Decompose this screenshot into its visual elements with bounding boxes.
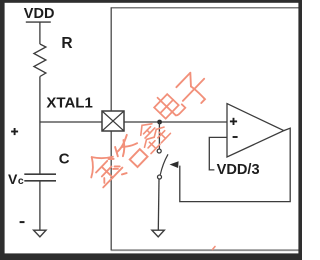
page border top	[0, 0, 302, 3]
arrowhead pointing at switch blade	[170, 161, 179, 168]
IC block outline (bottom edge)	[111, 249, 299, 251]
ground (below switch)	[152, 230, 164, 237]
ground (below capacitor)	[34, 230, 46, 237]
page border bottom	[0, 253, 302, 260]
resistor R	[34, 44, 46, 77]
watermark 电	[151, 89, 185, 123]
junction node dot	[157, 120, 162, 125]
svg-text:C: C	[59, 150, 70, 167]
wire: resistor to capacitor (through XTAL1 node)	[39, 77, 41, 174]
svg-text:XTAL1: XTAL1	[46, 95, 92, 112]
label - (capacitor polarity)	[20, 221, 25, 223]
watermark 鑫	[132, 115, 170, 153]
switch bottom contact	[158, 175, 162, 179]
capacitor C (top plate)	[24, 173, 56, 175]
watermark 洛	[105, 134, 150, 179]
page border left	[0, 0, 5, 260]
comparator - input mark	[233, 136, 238, 138]
capacitor C (bottom plate)	[24, 180, 56, 182]
svg-text:c: c	[18, 175, 24, 187]
label + (capacitor polarity)	[11, 128, 18, 135]
crystal XTAL1 (box with X)	[102, 111, 124, 131]
wire: comparator output feedback to switch	[180, 128, 290, 201]
svg-text:VDD: VDD	[24, 6, 55, 22]
wire: XTAL1 node to comparator + input	[40, 121, 227, 123]
comparator + input mark	[230, 118, 237, 125]
watermark 子	[173, 69, 215, 111]
switch blade	[160, 154, 168, 174]
IC block outline (top edge)	[111, 7, 299, 9]
IC block outline (left edge)	[110, 8, 112, 250]
wire: VDD bar to resistor	[39, 22, 41, 44]
op-amp comparator	[227, 104, 284, 157]
svg-text:R: R	[61, 35, 72, 52]
watermark 金	[81, 146, 123, 188]
svg-text:V: V	[8, 171, 18, 187]
page border right	[298, 0, 302, 260]
wire: - input to VDD/3 reference	[209, 137, 227, 170]
svg-text:VDD/3: VDD/3	[217, 162, 260, 178]
wire: node to switch	[158, 122, 160, 149]
VDD power bar	[26, 21, 51, 23]
wire: capacitor to ground	[39, 182, 41, 230]
switch top contact	[157, 149, 161, 153]
watermark stray fragment	[213, 247, 216, 250]
wire: switch to ground	[157, 179, 160, 230]
